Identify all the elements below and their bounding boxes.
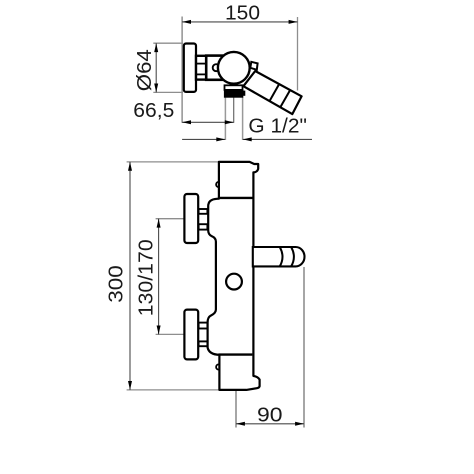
left nub on body [213,64,220,71]
flange top extension line [153,42,183,44]
wall flange [184,44,196,92]
temperature dial circle [226,274,242,290]
upper knob [184,194,198,243]
spout ring 1 [280,247,283,266]
dimension 150 line [182,21,297,23]
wall reference extension line [181,17,183,123]
handle neck tab [250,62,257,70]
dimension G 1/2 leader left [182,138,225,140]
mixer body outline [208,162,260,390]
cartridge housing [206,56,222,80]
thermostat body circle [218,52,250,84]
dimension 90 line [236,423,304,425]
dimension 130/170 line [158,219,160,335]
300 bottom extension line [127,389,220,391]
pipe left extension line [224,97,226,141]
90 right extension line (spout tip) [303,267,305,428]
handle-end extension line [297,17,299,91]
flange bottom extension line [153,91,183,93]
svg-text:Ø64: Ø64 [134,49,156,91]
top cap bottom edge [218,197,254,199]
outlet neck [225,85,243,90]
dimension G 1/2 leader right [243,138,312,140]
spout [253,247,305,266]
svg-text:150: 150 [225,3,260,25]
handle lever [243,71,301,114]
lower knob stem prongs [199,323,208,329]
130/170 bottom extension line [156,333,185,335]
svg-text:G 1/2": G 1/2" [248,116,307,138]
130/170 top extension line [156,218,185,220]
dimension 300 line [129,162,131,390]
pipe centerline [233,97,235,123]
upper knob stem prongs [199,209,208,214]
lower knob [184,310,198,360]
svg-text:90: 90 [257,404,283,426]
90 left extension line (body centre) [235,390,237,428]
dimension 66,5 line [182,121,234,123]
300 top extension line [127,161,219,163]
svg-text:130/170: 130/170 [135,239,157,316]
spout ring 2 [291,247,294,266]
union collar [196,56,206,80]
top cap screw bump [216,182,221,187]
bottom cap screw bump [216,364,221,369]
bottom cap top edge [218,353,252,355]
dimension Ø64 line [155,43,157,92]
outlet thread band G1/2 [224,90,242,97]
pipe right extension line [242,97,244,141]
svg-text:300: 300 [106,265,128,303]
svg-text:66,5: 66,5 [133,100,174,122]
